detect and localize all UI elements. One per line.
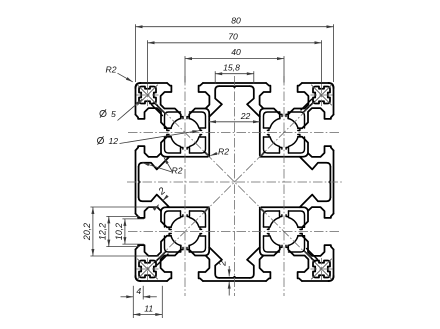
diameter 12 label (120, 131, 200, 144)
top-left quadrant internals (137, 84, 210, 156)
svg-text:4: 4 (136, 286, 141, 296)
svg-text:20,2: 20,2 (82, 223, 92, 241)
dimension 4 (121, 296, 134, 298)
dimension 20,2 (92, 207, 94, 256)
svg-text:12,2: 12,2 (98, 223, 108, 240)
dimension 80 (136, 26, 334, 28)
centerline horizontal upper holes (128, 132, 341, 134)
profile outer contour: top face module (slots, steps, groove, tower) (136, 83, 334, 155)
dimension 22 (209, 121, 260, 123)
svg-text:R2: R2 (218, 147, 229, 157)
svg-text:2: 2 (218, 260, 229, 267)
diagonal centerline TL-BR (140, 87, 330, 277)
core hole boss with notches (d12) (165, 112, 181, 128)
centerline vertical right holes (283, 76, 285, 296)
R2 leader (cavity boss corner) (210, 153, 217, 155)
dimension 70 (148, 42, 322, 44)
R2 leader (slot corner radii) (142, 163, 172, 172)
R2 leader (outer corner radius) (118, 73, 133, 82)
bottom face module (136, 209, 334, 281)
diameter 5 label (118, 99, 143, 120)
wall thickness 2 (left web) (163, 197, 167, 201)
svg-text:80: 80 (231, 15, 241, 25)
svg-text:11: 11 (144, 303, 153, 313)
svg-text:15,8: 15,8 (223, 62, 240, 72)
E notch castle (cavity side) (200, 128, 206, 137)
bottom-left quadrant internals (137, 207, 209, 280)
left face module (136, 83, 208, 281)
svg-text:40: 40 (231, 47, 241, 57)
top-right quadrant internals (260, 84, 332, 157)
wall thickness 2 (bottom groove floor) (228, 266, 230, 276)
svg-text:5: 5 (111, 109, 116, 119)
centerline horizontal middle (127, 181, 342, 183)
web stub to cavity corner (204, 152, 209, 157)
S notch castle (cavity side) (181, 148, 190, 154)
N notch tabs (slot side) (181, 117, 189, 119)
centerline vertical left holes (184, 76, 186, 296)
svg-text:70: 70 (228, 31, 238, 41)
diagonal centerline TR-BL (140, 87, 330, 277)
corner screw port hole (d5) (139, 87, 156, 104)
svg-text:R2: R2 (106, 65, 117, 75)
bottom-right quadrant internals (260, 208, 333, 280)
dimension 11 (133, 314, 162, 316)
diagonal web channel walls (corner hole to core hole) (154, 102, 165, 113)
centerline horizontal lower holes (128, 231, 341, 233)
dimension 40 (185, 58, 284, 60)
svg-text:12: 12 (109, 136, 119, 146)
svg-text:10,2: 10,2 (114, 223, 124, 240)
dimension 10,2 (124, 219, 126, 244)
bore circle arcs (189, 137, 199, 147)
centerline vertical middle (234, 76, 236, 296)
svg-text:22: 22 (240, 111, 251, 121)
W notch walls and tabs (slot side) (165, 128, 167, 136)
dimension 15,8 (215, 73, 254, 75)
dimension 12,2 (108, 216, 110, 246)
right face module (261, 83, 333, 281)
svg-text:R2: R2 (172, 166, 183, 176)
